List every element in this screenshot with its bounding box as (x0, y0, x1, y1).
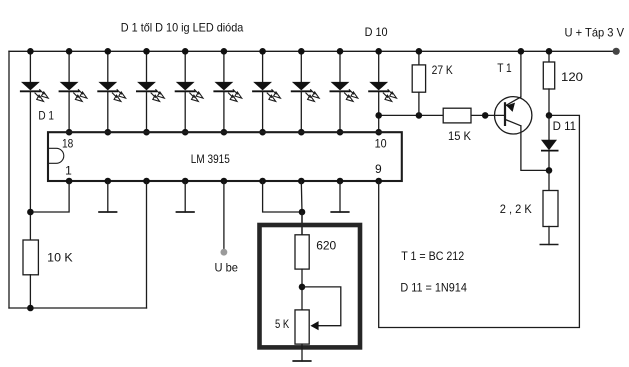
wire LED D3 anode column (107, 51, 109, 82)
node IC top pin 2 (66, 129, 73, 136)
node rail junction 2 (66, 48, 73, 55)
LED D3 (97, 82, 125, 102)
wire LED D2 anode column (68, 51, 70, 82)
node U+Tap terminal (613, 48, 620, 55)
node U be input terminal (221, 249, 228, 256)
node IC bottom pin 4 (182, 178, 189, 185)
wire top supply rail (9, 50, 613, 52)
node IC bottom pin 5 (221, 178, 228, 185)
node rail junction 5 (182, 48, 189, 55)
transistor T1 (495, 97, 532, 134)
wire pin3 to bottom return (146, 181, 148, 308)
resistor 27K (412, 65, 425, 92)
node bottom-left junction (27, 305, 34, 312)
resistor 10K (23, 240, 38, 275)
ground 2.2K terminal (540, 244, 559, 246)
wire D8 cathode to IC pin (300, 92, 302, 132)
wire divider column (301, 212, 303, 235)
svg-text:620: 620 (316, 238, 336, 252)
node rail junction 3 (105, 48, 112, 55)
LED D5 (175, 82, 203, 102)
LED D7 (252, 82, 280, 102)
wire T1 emitter (520, 51, 522, 97)
node IC top pin 9 (337, 129, 344, 136)
wire D6 cathode to IC pin (223, 92, 225, 132)
node rail emitter junction (518, 48, 525, 55)
svg-text:U + Táp 3 V: U + Táp 3 V (565, 25, 625, 39)
LED D4 (136, 82, 164, 102)
svg-text:18: 18 (62, 137, 74, 151)
svg-text:D 1: D 1 (38, 109, 54, 123)
LED D10 (368, 82, 396, 102)
calibration box (thick border) (260, 225, 361, 347)
wire pin9 loop to D11 node (379, 115, 580, 327)
svg-text:D 11: D 11 (553, 119, 577, 133)
op-amp U1 LM 3915 box (48, 132, 402, 181)
wire LED D5 anode column (184, 51, 186, 82)
svg-text:120: 120 (561, 70, 583, 84)
wire LED D8 anode column (300, 51, 302, 82)
node base-wire junction (482, 112, 489, 119)
svg-text:10 K: 10 K (47, 250, 72, 264)
svg-text:1: 1 (65, 163, 72, 177)
svg-text:9: 9 (375, 162, 382, 176)
wire LED D7 anode column (262, 51, 264, 82)
LED D8 (291, 82, 319, 102)
node IC bottom pin 7 (298, 178, 305, 185)
node rail junction 10 (375, 48, 382, 55)
svg-text:2 , 2 K: 2 , 2 K (500, 202, 532, 216)
svg-text:LM 3915: LM 3915 (191, 152, 230, 166)
wire pin5 to U be terminal (223, 181, 225, 249)
wire pin7 to divider (300, 181, 303, 235)
node IC bottom pin 2 (105, 178, 112, 185)
wire 2.2K bottom (548, 227, 550, 245)
wire 620 to 5K (301, 269, 303, 310)
svg-text:5 K: 5 K (275, 317, 289, 331)
node rail 120 junction (546, 48, 553, 55)
wire LED D4 anode column (146, 51, 148, 82)
node IC top pin 10 (375, 129, 382, 136)
svg-text:D 10: D 10 (365, 25, 388, 39)
node IC bottom pin 6 (259, 178, 266, 185)
wire LED D1 anode column (29, 51, 31, 82)
wire 10K to bottom return (29, 275, 31, 308)
LED D2 (59, 82, 87, 102)
node rail junction 6 (221, 48, 228, 55)
node IC top pin 3 (105, 129, 112, 136)
wire D3 cathode to IC pin (107, 92, 109, 132)
svg-text:D 11 = 1N914: D 11 = 1N914 (400, 280, 467, 294)
wire pin4 down (184, 181, 186, 212)
wire 120 top (548, 51, 550, 62)
wire pin6 jog (263, 181, 302, 212)
LED D9 (330, 82, 358, 102)
wire bottom-left ground-return (9, 307, 147, 309)
wire LED D9 anode column (339, 51, 341, 82)
svg-text:U be: U be (215, 261, 239, 275)
ground pin4 (176, 211, 195, 213)
ground 5K (292, 360, 311, 362)
node rail junction 9 (337, 48, 344, 55)
svg-text:D 1 től D 10 ig LED dióda: D 1 től D 10 ig LED dióda (121, 21, 244, 35)
wire LED D10 anode column (378, 51, 380, 82)
wire 120 bottom (548, 89, 550, 115)
wire 5K bottom (301, 344, 303, 361)
resistor 620 (295, 235, 309, 269)
node 120/D11 junction (546, 112, 553, 119)
wire pin8 down (339, 181, 341, 212)
wire LED D6 anode column (223, 51, 225, 82)
wire left vertical bus (8, 51, 10, 308)
potentiometer 5K (295, 310, 309, 344)
wire pin2 down (107, 181, 109, 212)
LED D6 (213, 82, 241, 102)
svg-text:27 K: 27 K (432, 63, 453, 77)
wire D10 cathode to IC pin (378, 92, 380, 132)
wire mid line to T1 base (379, 114, 505, 116)
wire D4 cathode to IC pin (146, 92, 148, 132)
diode D11 (541, 115, 559, 170)
node divider top junction (299, 209, 306, 216)
node wiper junction (299, 284, 306, 291)
node IC top pin 5 (182, 129, 189, 136)
node IC top pin 8 (298, 129, 305, 136)
node rail 27K junction (416, 48, 423, 55)
resistor 2.2K (543, 191, 558, 227)
wire D9 cathode to IC pin (339, 92, 341, 132)
node rail junction 1 (27, 48, 34, 55)
wiper arrow (310, 321, 318, 330)
node IC top pin 4 (143, 129, 150, 136)
svg-text:10: 10 (375, 137, 387, 151)
wire D5 cathode to IC pin (184, 92, 186, 132)
wire 27K bottom (418, 92, 420, 115)
node IC bottom pin 8 (337, 178, 344, 185)
node D11/collector junction (546, 167, 553, 174)
node rail junction 8 (298, 48, 305, 55)
node LED10/27K junction (375, 112, 382, 119)
wire 27K top (418, 51, 420, 65)
LED D1 (20, 82, 48, 102)
ground pin8 (330, 211, 349, 213)
wire 5K wiper feedback (302, 287, 341, 326)
node rail junction 4 (143, 48, 150, 55)
ground pin2 (98, 211, 117, 213)
wire 2.2K top (548, 170, 550, 190)
node 27K bottom junction (416, 112, 423, 119)
node IC top pin 7 (259, 129, 266, 136)
resistor 15K (443, 108, 471, 123)
svg-text:T 1 = BC 212: T 1 = BC 212 (401, 249, 464, 263)
wire D1 cathode to 10K (29, 92, 31, 240)
resistor 120 (543, 62, 554, 89)
node rail junction 7 (259, 48, 266, 55)
wire T1 collector (521, 126, 549, 171)
node D1/10K junction (27, 209, 34, 216)
node IC top pin 6 (221, 129, 228, 136)
node IC bottom pin 9 (375, 178, 382, 185)
wire D2 cathode to IC pin (68, 92, 70, 132)
wire D7 cathode to IC pin (262, 92, 264, 132)
node IC bottom pin 1 (66, 178, 73, 185)
svg-text:T 1: T 1 (497, 61, 512, 75)
node IC bottom pin 3 (143, 178, 150, 185)
svg-text:15 K: 15 K (448, 129, 471, 143)
wire pin1 to 10K node (30, 181, 69, 212)
